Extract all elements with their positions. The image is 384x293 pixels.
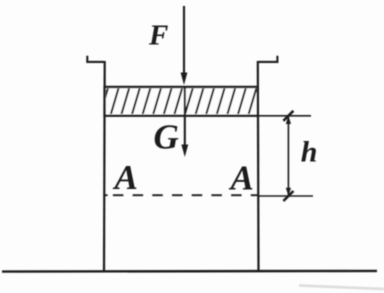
right rim flange bbox=[258, 56, 277, 62]
section line A-A (dashed, stub at left wall) bbox=[105, 194, 108, 196]
ground line bbox=[2, 270, 377, 273]
faint scan smudge (bottom right) bbox=[299, 286, 384, 290]
left rim flange bbox=[87, 56, 104, 62]
piston hatching bbox=[100, 88, 256, 115]
svg-text:h: h bbox=[301, 136, 318, 169]
svg-text:G: G bbox=[154, 117, 179, 156]
svg-text:A: A bbox=[113, 158, 138, 197]
weight arrow G (head) bbox=[181, 145, 188, 158]
dimension arrowhead (bottom, pointing down) bbox=[286, 188, 291, 196]
dimension tick (bottom) bbox=[283, 191, 293, 201]
dimension tick (top) bbox=[283, 111, 293, 121]
dimension line h (vertical) bbox=[287, 116, 289, 196]
force arrow F (shaft) bbox=[183, 6, 185, 75]
piston (rectangle) bbox=[105, 87, 258, 116]
svg-text:F: F bbox=[148, 20, 168, 52]
section line A-A (dashed) bbox=[113, 194, 258, 196]
right cylinder wall bbox=[257, 61, 260, 271]
weight arrow G (shaft) bbox=[184, 88, 186, 147]
dimension extension line (bottom, at A-A level) bbox=[258, 195, 313, 197]
left cylinder wall bbox=[103, 61, 106, 271]
dimension arrowhead (top, pointing up) bbox=[286, 116, 291, 124]
svg-text:A: A bbox=[229, 159, 254, 198]
force arrow F (head) bbox=[181, 73, 188, 86]
dimension extension line (top, at piston bottom) bbox=[258, 115, 311, 117]
